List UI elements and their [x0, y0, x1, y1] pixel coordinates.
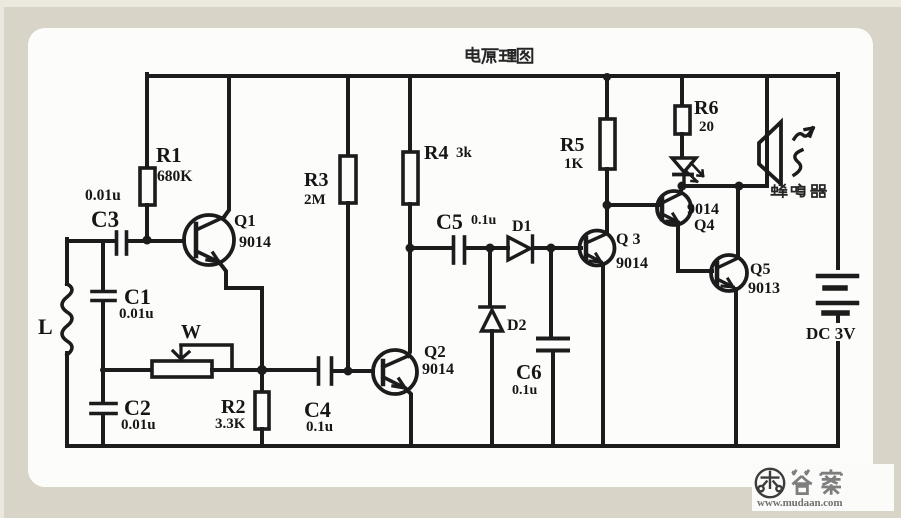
watermark white block [752, 464, 894, 511]
svg-text:W: W [181, 321, 201, 343]
svg-text:20: 20 [699, 119, 714, 135]
svg-text:680K: 680K [157, 168, 192, 185]
wire buzzer line [682, 184, 767, 188]
wire C5 to D1 [465, 246, 508, 250]
wire Q4 base [607, 203, 658, 207]
svg-text:9014: 9014 [616, 255, 648, 272]
svg-text:www.mudaan.com: www.mudaan.com [757, 497, 842, 509]
diode D1 [508, 236, 533, 262]
wire battery top [836, 74, 840, 268]
watermark icon circle 木 [756, 469, 784, 497]
svg-text:1K: 1K [564, 156, 584, 172]
wire C1 to C2 [101, 301, 105, 403]
transistor Q5 [711, 186, 747, 446]
svg-text:0.1u: 0.1u [306, 419, 333, 435]
svg-text:0.1u: 0.1u [471, 213, 497, 228]
svg-text:R2: R2 [221, 396, 245, 418]
potentiometer W [152, 345, 232, 377]
title char 理 [500, 50, 516, 61]
resistor R1 [140, 168, 155, 205]
wire R1 top [145, 74, 149, 168]
node D2 tap [486, 244, 495, 253]
buzzer sound waves [794, 128, 813, 175]
buzzer char 器 [811, 185, 826, 197]
svg-text:R5: R5 [560, 134, 584, 156]
watermark char 答 [792, 470, 812, 494]
svg-text:3.3K: 3.3K [215, 416, 246, 432]
wire battery bottom [836, 343, 840, 446]
watermark char 案 [821, 469, 842, 494]
node R3/Q2 base junction [344, 367, 353, 376]
buzzer char 蜂 [771, 185, 786, 198]
diode D2 [480, 248, 504, 446]
svg-text:R1: R1 [156, 143, 182, 167]
wire bottom ground bus [67, 444, 838, 448]
resistor R5 [600, 119, 615, 169]
svg-text:9013: 9013 [748, 280, 780, 297]
svg-text:R4: R4 [424, 142, 448, 164]
svg-text:0.01u: 0.01u [85, 187, 121, 204]
resistor R2 [255, 370, 269, 446]
buzzer speaker cone [759, 122, 781, 184]
svg-text:9014: 9014 [422, 361, 454, 378]
buzzer char 鸣 [792, 184, 805, 196]
wire D1 to Q3 base [534, 246, 581, 250]
capacitor C2 [91, 404, 116, 414]
svg-text:0.01u: 0.01u [121, 417, 156, 433]
resistor R4 [403, 152, 418, 204]
title char 图 [518, 49, 533, 63]
wire R3 bottom [346, 203, 350, 371]
wire R3 top [346, 76, 350, 156]
wire R6 top [680, 76, 684, 106]
node R4/C5 junction [406, 244, 415, 253]
inductor L [62, 284, 72, 355]
resistor R6 [675, 106, 690, 134]
wire C4 to Q2 base [332, 369, 373, 373]
node Q3 collector / Q4 base [603, 201, 612, 210]
svg-text:DC 3V: DC 3V [806, 324, 856, 343]
svg-text:L: L [38, 314, 53, 339]
svg-text:9014: 9014 [687, 201, 719, 218]
capacitor C6 [538, 248, 568, 446]
svg-text:Q2: Q2 [424, 342, 446, 361]
svg-text:D2: D2 [507, 317, 527, 334]
wire R1 bottom [145, 205, 149, 240]
title char 电 [467, 48, 480, 62]
capacitor C3 [117, 232, 127, 254]
battery BT1 [818, 276, 857, 321]
node Q1 base junction [143, 236, 152, 245]
node Q5 collector tap [735, 182, 744, 191]
svg-text:R6: R6 [694, 97, 718, 119]
svg-text:3k: 3k [456, 145, 473, 161]
svg-text:C5: C5 [436, 209, 463, 234]
node emitter/R2/C4 junction [257, 365, 267, 375]
wire pot to C4 [212, 368, 317, 372]
wire R5 top [605, 76, 609, 119]
svg-text:9014: 9014 [239, 234, 271, 251]
svg-text:Q1: Q1 [234, 211, 256, 230]
svg-text:C6: C6 [516, 360, 542, 384]
wire C5 left [410, 246, 452, 250]
wire C1 branch [101, 241, 105, 290]
resistor R3 [340, 156, 356, 203]
wire left loop upper [65, 239, 69, 284]
wire C3 right to Q1 base [127, 239, 184, 243]
capacitor C5 [454, 237, 465, 263]
wire C3 left [67, 239, 115, 243]
svg-text:D1: D1 [512, 218, 532, 235]
transistor Q4 [657, 188, 712, 271]
wire top supply bus [147, 74, 838, 78]
LED D3 [672, 158, 703, 186]
svg-text:0.1u: 0.1u [512, 383, 538, 398]
node R5 top bus [603, 73, 611, 81]
wire W line left [103, 368, 152, 372]
wire left loop lower [65, 353, 69, 446]
node C6 tap [547, 244, 556, 253]
svg-text:C3: C3 [91, 207, 119, 232]
transistor Q2 [373, 350, 417, 446]
svg-text:2M: 2M [304, 192, 326, 208]
svg-text:Q 3: Q 3 [616, 231, 640, 248]
svg-text:R3: R3 [304, 169, 328, 191]
wire R4 to Q2 collector [408, 204, 410, 356]
svg-text:Q4: Q4 [694, 217, 714, 234]
wire buzzer vertical [765, 76, 769, 186]
wire C2 bottom [101, 414, 105, 446]
capacitor C4 [319, 358, 332, 384]
transistor Q1 [184, 76, 262, 366]
node W tap [100, 367, 106, 373]
capacitor C1 [92, 292, 115, 301]
svg-text:Q5: Q5 [750, 261, 770, 278]
wire R5 to Q3 collector [605, 169, 609, 233]
svg-text:0.01u: 0.01u [119, 306, 154, 322]
wire R4 top [408, 76, 412, 152]
node LED / Q4 collector [678, 182, 687, 191]
wire R6 to LED [680, 134, 684, 157]
transistor Q3 [580, 231, 615, 447]
title char 原 [482, 49, 497, 63]
